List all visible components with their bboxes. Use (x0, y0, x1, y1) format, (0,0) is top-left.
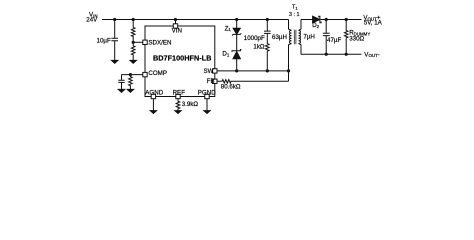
svg-text:1000pF: 1000pF (244, 35, 265, 42)
ground PGND (204, 111, 210, 114)
ground COMP resistor (127, 89, 133, 92)
pin square COMP (143, 72, 147, 76)
zener Z1 (233, 28, 240, 34)
svg-text:D2: D2 (312, 22, 319, 29)
pin square REF (176, 94, 180, 98)
wire FB net up to SW node (288, 71, 290, 81)
svg-text:SDX/EN: SDX/EN (148, 40, 171, 47)
junction RDUMMY on VOUT+ rail (345, 18, 348, 21)
resistor 3.9k on REF (176, 99, 180, 111)
diode D1 schottky (233, 52, 240, 59)
capacitor COMP (118, 80, 124, 89)
ground 10uF (112, 60, 118, 63)
pin square VIN (173, 24, 177, 28)
capacitor 1000pF snubber (264, 20, 271, 44)
svg-text:5V, 1A: 5V, 1A (364, 19, 383, 26)
svg-text:COMP: COMP (148, 70, 167, 77)
junction 47uF on VOUT+ rail (325, 18, 328, 21)
wire VIN pin stub (175, 20, 177, 24)
pin square SW (213, 69, 217, 73)
transformer T1 core (294, 30, 296, 44)
svg-text:7µH: 7µH (303, 34, 314, 41)
IC U1 BD7F100HFN-LB body (145, 26, 215, 97)
svg-text:REF: REF (173, 90, 186, 97)
zener Z1 branch wire (236, 20, 238, 71)
resistor RDUMMY (344, 20, 348, 55)
svg-text:VOUT-: VOUT- (364, 51, 379, 58)
svg-text:SW: SW (204, 68, 214, 75)
junction EN divider on VIN rail (132, 18, 135, 21)
wire SW line (217, 70, 289, 72)
svg-text:VIN: VIN (172, 28, 182, 35)
svg-text:80.6kΩ: 80.6kΩ (221, 84, 241, 91)
transformer T1 secondary leads (299, 20, 302, 55)
transformer T1 primary bottom lead (289, 43, 292, 71)
pin square SDX/EN (143, 40, 147, 44)
resistor 1k snubber (266, 44, 270, 71)
svg-text:1kΩ: 1kΩ (253, 44, 265, 51)
svg-text:Z1: Z1 (225, 25, 232, 32)
wire VOUT+ rail (321, 19, 362, 21)
junction snubber on rail (266, 18, 269, 21)
capacitor 47uF output (323, 20, 330, 55)
wire COMP network (122, 75, 143, 80)
wire secondary top to D2 anode (301, 19, 313, 21)
capacitor C 10uF branch (111, 20, 118, 61)
svg-text:24V: 24V (86, 16, 98, 23)
svg-text:3.9kΩ: 3.9kΩ (182, 101, 199, 108)
svg-text:AGND: AGND (145, 90, 163, 97)
ground AGND (150, 111, 156, 114)
transformer T1 primary lead (289, 20, 292, 31)
junction COMP RC node (129, 73, 132, 76)
junction 10uF on VIN rail (113, 18, 116, 21)
transformer T1 primary winding (290, 30, 292, 43)
resistor COMP (129, 75, 133, 90)
svg-text:PGND: PGND (198, 90, 216, 97)
svg-text:D1: D1 (222, 50, 229, 57)
junction D1 on SW line (235, 69, 238, 72)
wire top rail VIN (102, 19, 289, 21)
ground COMP capacitor (118, 89, 124, 92)
svg-text:BD7F100HFN-LB: BD7F100HFN-LB (153, 53, 211, 62)
svg-text:330Ω: 330Ω (349, 35, 364, 42)
junction VIN pin stub on rail (174, 18, 177, 21)
svg-text:47µF: 47µF (327, 37, 341, 44)
svg-text:63µH: 63µH (272, 34, 287, 41)
junction snubber on SW line (266, 69, 269, 72)
wire SDX/EN pin (133, 41, 143, 43)
junction RDUMMY on VOUT- rail (345, 53, 348, 56)
junction Z1 clamp on rail (235, 18, 238, 21)
diode D2 schottky (313, 16, 320, 23)
transformer T1 secondary winding (299, 30, 301, 43)
pin square FB (213, 79, 217, 83)
wire secondary bottom rail (301, 53, 362, 55)
junction 47uF on VOUT- rail (325, 53, 328, 56)
ground REF (175, 111, 181, 114)
svg-text:FB: FB (207, 78, 215, 85)
junction primary/FB on SW line (287, 69, 290, 72)
wire PGND to ground (206, 99, 208, 111)
pin square PGND (205, 94, 209, 98)
ground EN divider (130, 60, 136, 63)
resistor EN lower divider (131, 42, 135, 60)
svg-text:T1: T1 (292, 5, 298, 11)
resistor EN upper divider (131, 20, 135, 43)
pin square AGND (151, 94, 155, 98)
junction EN divider mid node (132, 41, 135, 44)
svg-text:10µF: 10µF (97, 38, 111, 45)
resistor 80.6k FB (217, 80, 289, 84)
svg-text:3 : 1: 3 : 1 (289, 12, 300, 18)
wire AGND to ground (152, 99, 154, 111)
